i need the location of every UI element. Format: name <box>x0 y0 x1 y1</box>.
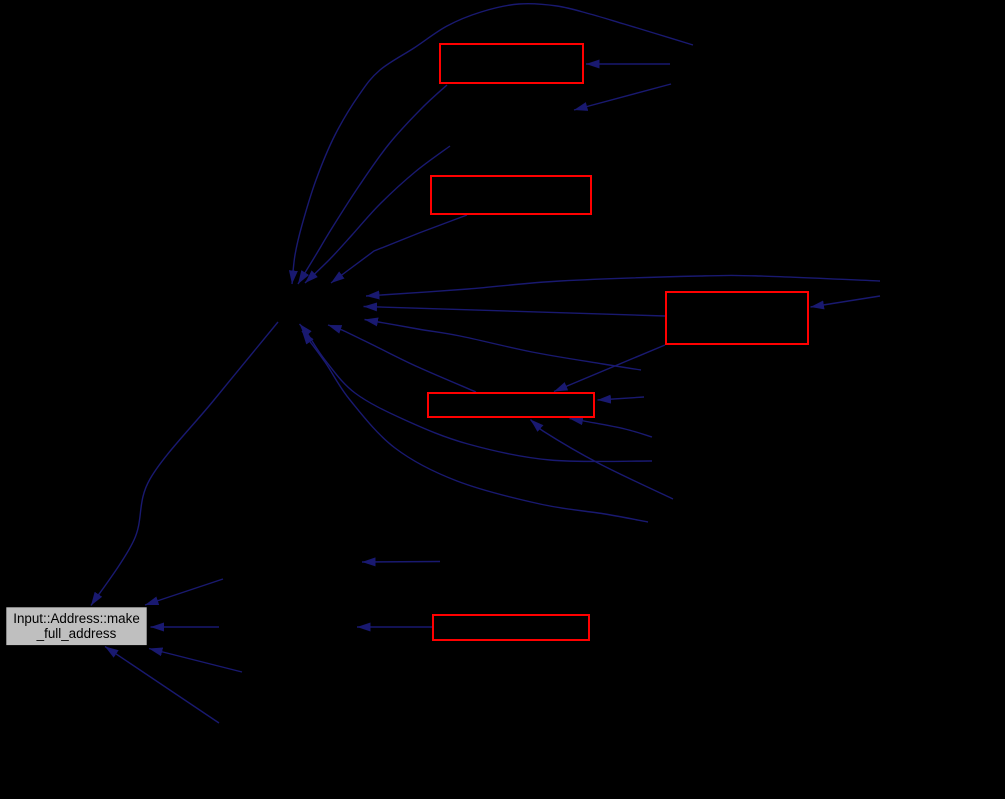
edge caller row to node row-562 <box>362 561 440 564</box>
edge top-right caller to node-under-R1 <box>574 84 671 110</box>
edge mid-right caller to center node <box>365 320 642 371</box>
edge far-right caller to R3 <box>811 296 881 307</box>
red box R2 (truncated caller) <box>431 176 591 214</box>
edge top-right caller to R1 <box>586 63 670 65</box>
red box R3 (truncated caller) <box>666 292 808 344</box>
edge right caller to R4 bottom <box>570 419 653 438</box>
edge far-right caller to center node <box>366 275 880 296</box>
edge center node to make_full_address <box>91 322 278 606</box>
gray current node Input::Address::make_full_address <box>6 607 147 646</box>
red box R5 (truncated caller) <box>433 615 589 640</box>
edge right-column caller B to center node <box>302 331 648 522</box>
edge node-under-R1 to center node <box>305 146 450 283</box>
edge right caller to R4 right <box>598 397 645 400</box>
edge arc top-right caller to center node <box>292 4 693 284</box>
edge node-562 to make_full_address <box>145 579 223 605</box>
edge node-627 to make_full_address <box>151 626 220 628</box>
svg-text:_full_address: _full_address <box>36 626 117 641</box>
edge R3 to center node <box>364 307 666 317</box>
edge R3 to R4 <box>554 345 665 392</box>
red box R1 (truncated caller) <box>440 44 583 83</box>
edge R1 to center node <box>298 85 447 284</box>
edge R5 to node row-627 <box>357 626 432 628</box>
edge node-723 to make_full_address <box>105 647 219 724</box>
edge right-column caller A to center node <box>300 324 653 462</box>
svg-text:Input::Address::make: Input::Address::make <box>13 611 140 626</box>
red box R4 (truncated caller) <box>428 393 594 417</box>
edge R2 to center node <box>331 215 467 283</box>
edge R4 to center node <box>328 325 476 392</box>
edge lower-right caller to R4 bottom <box>531 420 674 500</box>
edge node-672 to make_full_address <box>149 649 242 673</box>
